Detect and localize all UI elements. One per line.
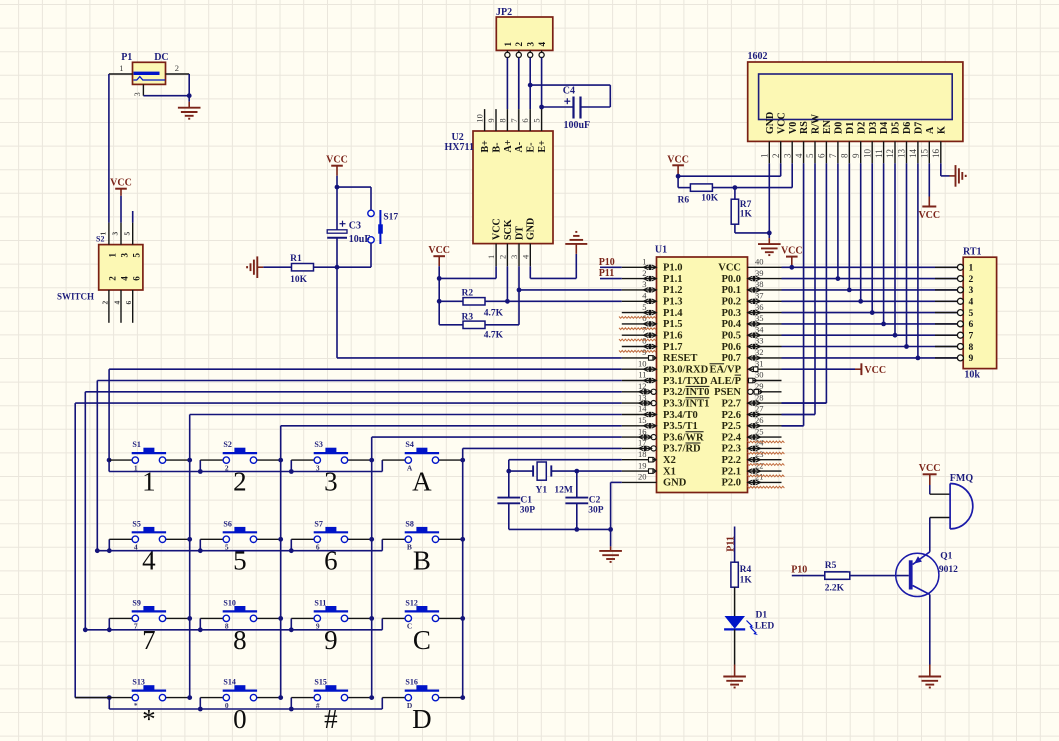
svg-text:5: 5	[969, 309, 974, 319]
svg-text:S2: S2	[223, 440, 231, 449]
svg-text:VCC: VCC	[919, 463, 941, 474]
svg-text:GND: GND	[526, 218, 537, 240]
svg-text:6: 6	[324, 546, 338, 576]
svg-text:VCC: VCC	[918, 210, 940, 221]
svg-text:3: 3	[316, 463, 320, 472]
svg-text:1: 1	[503, 42, 513, 47]
svg-text:1: 1	[99, 232, 108, 236]
svg-text:D1: D1	[845, 122, 856, 134]
svg-text:10: 10	[862, 149, 872, 159]
svg-text:2: 2	[642, 268, 646, 278]
svg-text:5: 5	[122, 232, 131, 236]
svg-text:11: 11	[638, 370, 646, 380]
svg-text:#: #	[324, 704, 338, 734]
svg-text:100uF: 100uF	[564, 120, 591, 131]
svg-text:5: 5	[805, 153, 815, 158]
svg-text:2: 2	[514, 42, 524, 47]
svg-text:1: 1	[134, 463, 138, 472]
svg-text:1K: 1K	[740, 209, 753, 219]
svg-text:15: 15	[920, 149, 930, 159]
svg-text:VCC: VCC	[718, 263, 741, 274]
svg-text:3: 3	[526, 42, 536, 47]
svg-text:6: 6	[131, 276, 141, 281]
svg-text:8: 8	[969, 343, 974, 353]
svg-text:P2.1: P2.1	[721, 466, 741, 477]
svg-text:P0.5: P0.5	[721, 331, 741, 342]
svg-text:10: 10	[638, 358, 647, 368]
svg-text:2: 2	[771, 154, 781, 159]
svg-text:4: 4	[120, 276, 130, 281]
svg-text:P1.6: P1.6	[663, 331, 683, 342]
svg-text:1: 1	[486, 255, 496, 259]
svg-text:HX711: HX711	[445, 142, 474, 153]
svg-text:D2: D2	[856, 122, 867, 134]
svg-text:4: 4	[134, 543, 138, 552]
svg-text:30P: 30P	[588, 505, 604, 515]
svg-text:3: 3	[132, 92, 142, 96]
svg-text:20: 20	[638, 472, 647, 482]
svg-text:P10: P10	[599, 257, 615, 268]
svg-text:S15: S15	[314, 678, 326, 687]
svg-text:12: 12	[885, 149, 895, 158]
svg-text:VCC: VCC	[864, 365, 886, 376]
svg-text:S12: S12	[405, 598, 417, 607]
svg-text:B+: B+	[480, 140, 491, 153]
svg-text:2: 2	[175, 63, 179, 73]
svg-text:10K: 10K	[290, 275, 308, 285]
svg-text:VCC: VCC	[326, 155, 348, 166]
svg-text:30P: 30P	[520, 505, 536, 515]
svg-text:R/W: R/W	[811, 114, 822, 134]
svg-text:X1: X1	[663, 466, 676, 477]
svg-text:*: *	[142, 704, 156, 734]
svg-text:VCC: VCC	[110, 178, 132, 189]
svg-text:8: 8	[497, 118, 507, 122]
svg-text:*: *	[134, 701, 138, 710]
svg-text:GND: GND	[663, 478, 687, 489]
svg-text:P2.5: P2.5	[721, 421, 741, 432]
svg-text:4: 4	[794, 153, 804, 158]
svg-text:7: 7	[969, 332, 974, 342]
svg-text:P2.2: P2.2	[721, 455, 741, 466]
svg-text:S1: S1	[132, 440, 140, 449]
svg-text:S17: S17	[383, 213, 398, 223]
svg-text:10: 10	[475, 114, 485, 123]
svg-text:P1.2: P1.2	[663, 285, 683, 296]
svg-text:P1.7: P1.7	[663, 342, 683, 353]
svg-text:7: 7	[509, 118, 519, 122]
svg-text:P11: P11	[599, 268, 615, 279]
svg-text:7: 7	[828, 153, 838, 158]
svg-text:8: 8	[840, 153, 850, 158]
svg-text:C4: C4	[563, 86, 575, 97]
svg-text:1: 1	[969, 264, 974, 274]
svg-text:4.7K: 4.7K	[484, 331, 504, 341]
svg-text:Q1: Q1	[940, 552, 952, 562]
svg-text:DT: DT	[514, 226, 525, 240]
svg-text:R2: R2	[462, 289, 474, 299]
svg-text:P10: P10	[791, 564, 807, 575]
svg-text:S13: S13	[132, 678, 144, 687]
svg-text:5: 5	[233, 546, 247, 576]
svg-text:10k: 10k	[964, 370, 980, 381]
svg-text:P1.4: P1.4	[663, 308, 683, 319]
svg-text:7: 7	[134, 622, 138, 631]
svg-text:1: 1	[108, 253, 118, 258]
svg-text:S3: S3	[314, 440, 322, 449]
svg-text:2: 2	[969, 275, 974, 285]
svg-text:B-: B-	[491, 143, 502, 153]
svg-text:RT1: RT1	[963, 247, 982, 258]
svg-text:S16: S16	[405, 678, 417, 687]
svg-text:6: 6	[817, 153, 827, 158]
svg-text:3: 3	[111, 232, 120, 236]
svg-text:14: 14	[638, 404, 647, 414]
svg-text:PSEN: PSEN	[714, 387, 741, 398]
svg-text:2: 2	[108, 276, 118, 281]
svg-text:D7: D7	[914, 122, 925, 134]
svg-text:P3.1/TXD: P3.1/TXD	[663, 376, 708, 387]
svg-text:16: 16	[931, 149, 941, 159]
svg-text:6: 6	[520, 118, 530, 122]
svg-text:4: 4	[969, 298, 974, 308]
svg-text:B: B	[407, 543, 412, 552]
svg-text:C: C	[407, 622, 412, 631]
svg-text:FMQ: FMQ	[950, 473, 974, 484]
svg-text:4: 4	[142, 546, 156, 576]
svg-text:1: 1	[642, 257, 646, 267]
svg-text:8: 8	[233, 625, 247, 655]
svg-text:P2.6: P2.6	[721, 410, 741, 421]
svg-text:0: 0	[225, 701, 229, 710]
svg-text:VCC: VCC	[492, 218, 503, 240]
svg-text:P3.3/INT1: P3.3/INT1	[663, 398, 709, 409]
svg-text:R4: R4	[740, 565, 752, 575]
svg-text:1602: 1602	[748, 51, 768, 62]
svg-text:B: B	[413, 546, 431, 576]
svg-text:C2: C2	[589, 496, 601, 506]
svg-text:9: 9	[851, 153, 861, 158]
svg-text:P0.0: P0.0	[721, 274, 741, 285]
svg-text:C: C	[413, 625, 431, 655]
svg-text:9: 9	[316, 622, 320, 631]
svg-text:3: 3	[120, 253, 130, 258]
svg-text:S6: S6	[223, 519, 231, 528]
svg-text:9012: 9012	[939, 565, 958, 575]
svg-text:E-: E-	[526, 143, 537, 153]
svg-text:C1: C1	[520, 496, 532, 506]
svg-text:2: 2	[100, 301, 109, 305]
svg-text:VCC: VCC	[776, 112, 787, 134]
svg-text:VCC: VCC	[428, 245, 450, 256]
svg-text:Y1: Y1	[536, 486, 548, 496]
svg-text:P0.2: P0.2	[721, 297, 741, 308]
svg-text:0: 0	[233, 704, 247, 734]
svg-text:P2.3: P2.3	[721, 444, 741, 455]
svg-text:4: 4	[113, 301, 122, 305]
svg-text:3: 3	[509, 255, 519, 259]
svg-text:30: 30	[755, 370, 764, 380]
svg-text:#: #	[316, 701, 320, 710]
svg-text:19: 19	[638, 460, 647, 470]
svg-text:U1: U1	[655, 245, 667, 256]
svg-text:9: 9	[969, 354, 974, 364]
svg-text:S10: S10	[223, 598, 235, 607]
svg-text:EN: EN	[822, 119, 833, 134]
svg-text:D1: D1	[756, 611, 768, 621]
svg-text:S7: S7	[314, 519, 322, 528]
svg-text:5: 5	[131, 253, 141, 258]
svg-text:VCC: VCC	[667, 154, 689, 165]
svg-text:1: 1	[119, 63, 123, 73]
svg-text:3: 3	[642, 279, 646, 289]
svg-text:V0: V0	[788, 122, 799, 134]
svg-text:GND: GND	[765, 112, 776, 134]
svg-text:8: 8	[225, 622, 229, 631]
svg-text:S4: S4	[405, 440, 413, 449]
svg-text:40: 40	[755, 257, 764, 267]
svg-text:2.2K: 2.2K	[825, 584, 845, 594]
svg-text:R3: R3	[462, 313, 474, 323]
svg-text:12M: 12M	[554, 486, 573, 496]
svg-text:P1.1: P1.1	[663, 274, 683, 285]
svg-text:P3.7/RD: P3.7/RD	[663, 444, 701, 455]
svg-text:P2.7: P2.7	[721, 398, 741, 409]
svg-text:4.7K: 4.7K	[484, 309, 504, 319]
svg-text:P1.0: P1.0	[663, 263, 683, 274]
svg-text:D: D	[412, 704, 432, 734]
svg-text:ALE/P: ALE/P	[710, 376, 742, 387]
svg-text:D3: D3	[868, 122, 879, 134]
svg-text:RS: RS	[799, 121, 810, 134]
svg-text:5: 5	[225, 543, 229, 552]
svg-text:S9: S9	[132, 598, 140, 607]
svg-text:P0.1: P0.1	[721, 285, 741, 296]
svg-text:18: 18	[638, 449, 647, 459]
svg-text:S11: S11	[314, 598, 326, 607]
svg-text:P0.6: P0.6	[721, 342, 741, 353]
svg-text:SWITCH: SWITCH	[57, 292, 94, 302]
svg-text:S14: S14	[223, 678, 235, 687]
svg-text:5: 5	[532, 118, 542, 122]
svg-text:P3.2/INT0: P3.2/INT0	[663, 387, 709, 398]
svg-text:5: 5	[642, 302, 646, 312]
svg-text:K: K	[936, 126, 947, 134]
svg-text:A-: A-	[514, 142, 525, 153]
svg-text:14: 14	[908, 149, 918, 159]
svg-text:9: 9	[324, 625, 338, 655]
svg-text:A: A	[412, 467, 432, 497]
svg-text:P0.3: P0.3	[721, 308, 741, 319]
svg-text:P0.4: P0.4	[721, 319, 741, 330]
svg-text:E+: E+	[537, 140, 548, 153]
svg-text:1: 1	[142, 467, 156, 497]
svg-text:S8: S8	[405, 519, 413, 528]
svg-text:P3.4/T0: P3.4/T0	[663, 410, 698, 421]
svg-text:X2: X2	[663, 455, 676, 466]
svg-text:P2.0: P2.0	[721, 478, 741, 489]
svg-text:1K: 1K	[740, 576, 753, 586]
svg-text:D4: D4	[879, 122, 890, 134]
svg-text:10K: 10K	[701, 194, 719, 204]
svg-text:D0: D0	[834, 122, 845, 134]
svg-text:DC: DC	[154, 52, 168, 63]
svg-text:P2.4: P2.4	[721, 432, 741, 443]
svg-text:6: 6	[316, 543, 320, 552]
svg-text:C3: C3	[349, 221, 361, 232]
svg-text:P3.0/RXD: P3.0/RXD	[663, 365, 709, 376]
svg-text:2: 2	[233, 467, 247, 497]
svg-text:4: 4	[537, 42, 547, 47]
svg-text:7: 7	[142, 625, 156, 655]
svg-text:3: 3	[324, 467, 338, 497]
svg-text:P1.5: P1.5	[663, 319, 683, 330]
svg-text:2: 2	[225, 463, 229, 472]
svg-text:P0.7: P0.7	[721, 353, 741, 364]
svg-text:11: 11	[874, 149, 884, 158]
svg-text:6: 6	[969, 320, 974, 330]
svg-text:15: 15	[638, 415, 647, 425]
svg-text:D6: D6	[902, 122, 913, 134]
svg-text:JP2: JP2	[496, 7, 512, 18]
svg-text:R5: R5	[825, 561, 837, 571]
svg-text:R6: R6	[678, 196, 690, 206]
svg-text:P1: P1	[121, 52, 132, 63]
svg-text:S5: S5	[132, 519, 140, 528]
svg-text:R1: R1	[290, 254, 302, 264]
svg-text:P3.6/WR: P3.6/WR	[663, 432, 704, 443]
svg-text:A: A	[925, 126, 936, 134]
svg-text:13: 13	[897, 149, 907, 159]
svg-text:6: 6	[124, 301, 133, 305]
svg-text:3: 3	[782, 153, 792, 158]
svg-text:2: 2	[497, 255, 507, 259]
svg-text:LED: LED	[755, 622, 775, 632]
svg-text:1: 1	[760, 154, 770, 159]
svg-text:9: 9	[486, 118, 496, 122]
svg-text:P3.5/T1: P3.5/T1	[663, 421, 698, 432]
svg-text:VCC: VCC	[781, 246, 803, 257]
svg-text:3: 3	[969, 286, 974, 296]
svg-text:D5: D5	[891, 122, 902, 134]
svg-text:A+: A+	[503, 139, 514, 152]
svg-text:EA/VP: EA/VP	[710, 365, 742, 376]
svg-text:10uF: 10uF	[349, 234, 371, 245]
svg-text:RESET: RESET	[663, 353, 697, 364]
svg-text:P1.3: P1.3	[663, 297, 683, 308]
svg-text:SCK: SCK	[503, 219, 514, 240]
